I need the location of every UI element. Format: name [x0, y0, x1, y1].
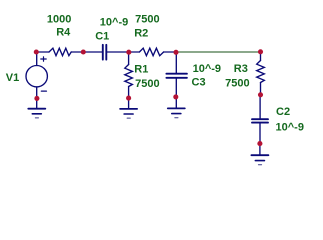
node C1-R1-R2 — [126, 50, 131, 55]
node C3 bottom — [173, 94, 178, 99]
capacitor C1 — [103, 45, 107, 60]
svg-text:10^-9: 10^-9 — [276, 121, 304, 133]
svg-text:7500: 7500 — [135, 78, 159, 90]
svg-text:10^-9: 10^-9 — [100, 17, 128, 29]
wire (green net) — [176, 51, 261, 53]
resistor R4 — [49, 48, 71, 56]
node R3-C2 — [258, 92, 263, 97]
resistor R1 — [125, 52, 133, 98]
svg-text:C2: C2 — [276, 106, 290, 118]
wire — [71, 51, 102, 53]
svg-text:V1: V1 — [6, 72, 19, 84]
wire — [37, 51, 49, 53]
svg-text:R2: R2 — [134, 27, 148, 39]
svg-text:1000: 1000 — [47, 13, 71, 25]
capacitor C3 — [166, 52, 187, 97]
node C2 bottom — [257, 141, 262, 146]
svg-text:R4: R4 — [56, 26, 71, 38]
node R3 top — [258, 49, 263, 54]
ground (C3) — [168, 97, 185, 118]
ground (C2) — [251, 144, 268, 165]
ground (V1) — [28, 98, 45, 118]
voltage source V1 — [26, 52, 47, 98]
node R1 bottom — [126, 96, 131, 101]
svg-text:R3: R3 — [234, 63, 248, 75]
resistor R3 — [257, 52, 265, 95]
wire — [107, 51, 139, 53]
resistor R2 — [139, 48, 163, 56]
svg-text:R1: R1 — [134, 63, 148, 75]
node V1 top / R4 left — [34, 49, 39, 54]
svg-text:C1: C1 — [95, 30, 109, 42]
svg-text:7500: 7500 — [135, 14, 159, 26]
node R2-C3 junction — [173, 50, 178, 55]
node V1 bottom — [34, 96, 39, 101]
svg-text:10^-9: 10^-9 — [193, 63, 221, 75]
svg-text:C3: C3 — [192, 77, 206, 89]
svg-text:7500: 7500 — [225, 77, 249, 89]
ground (R1) — [120, 98, 137, 118]
capacitor C2 — [252, 95, 268, 144]
node R4-C1 — [81, 49, 86, 54]
wire — [164, 51, 176, 53]
